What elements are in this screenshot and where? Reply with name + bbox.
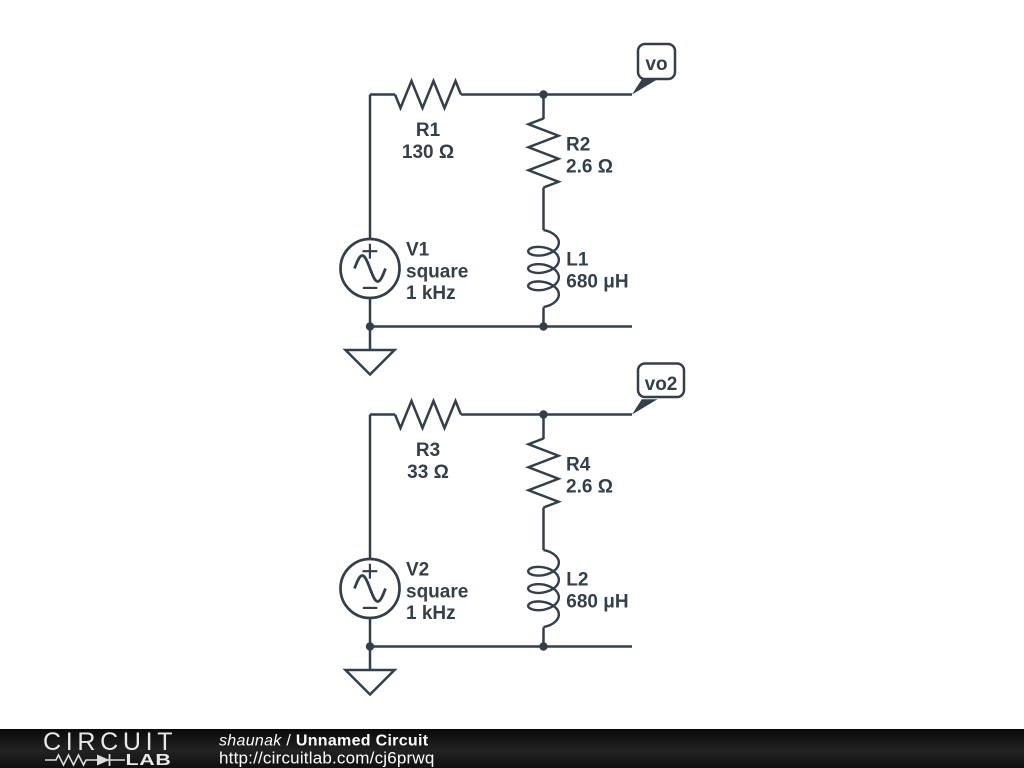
svg-text:R4: R4: [566, 455, 591, 476]
svg-text:2.6 Ω: 2.6 Ω: [566, 156, 613, 177]
svg-text:http://circuitlab.com/cj6prwq: http://circuitlab.com/cj6prwq: [219, 749, 435, 768]
svg-text:1 kHz: 1 kHz: [406, 283, 456, 304]
svg-text:R2: R2: [566, 135, 590, 156]
svg-text:square: square: [406, 582, 468, 603]
svg-text:130 Ω: 130 Ω: [402, 142, 454, 163]
svg-text:square: square: [406, 262, 468, 283]
svg-text:vo2: vo2: [645, 374, 678, 395]
svg-text:shaunak / Unnamed Circuit: shaunak / Unnamed Circuit: [219, 733, 429, 750]
svg-text:L2: L2: [566, 570, 588, 591]
svg-text:R3: R3: [416, 440, 440, 461]
svg-text:680 μH: 680 μH: [566, 272, 628, 293]
svg-text:V2: V2: [406, 560, 429, 581]
svg-text:680 μH: 680 μH: [566, 592, 628, 613]
svg-text:1 kHz: 1 kHz: [406, 603, 456, 624]
svg-text:vo: vo: [645, 54, 667, 75]
svg-text:R1: R1: [416, 120, 441, 141]
svg-text:V1: V1: [406, 240, 430, 261]
svg-text:LAB: LAB: [126, 751, 172, 768]
svg-text:2.6 Ω: 2.6 Ω: [566, 476, 613, 497]
svg-text:33 Ω: 33 Ω: [407, 462, 449, 483]
svg-text:L1: L1: [566, 250, 589, 271]
